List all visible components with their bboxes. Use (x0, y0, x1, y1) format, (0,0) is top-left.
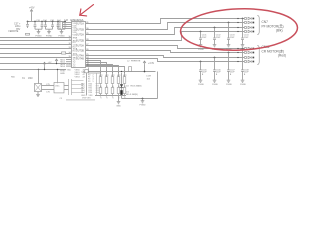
svg-text:FERRITE: FERRITE (9, 31, 19, 33)
svg-text:OUT2A: OUT2A (76, 34, 84, 37)
svg-text:VDD: VDD (73, 34, 78, 36)
svg-text:PGND: PGND (212, 84, 218, 86)
svg-text:PGND: PGND (139, 105, 146, 107)
svg-text:15: 15 (87, 65, 89, 67)
svg-text:+5V: +5V (48, 62, 52, 64)
svg-text:(Red): (Red) (278, 54, 286, 58)
svg-text:OUT2B: OUT2B (76, 40, 84, 43)
svg-text:220P: 220P (244, 37, 249, 39)
svg-text:10: 10 (68, 36, 70, 38)
svg-text:PGND: PGND (240, 84, 246, 86)
svg-text:ENB: ENB (73, 37, 78, 39)
svg-text:14: 14 (68, 52, 70, 54)
svg-text:OUT3A: OUT3A (76, 45, 84, 48)
svg-text:RD-3.3M(B): RD-3.3M(B) (126, 94, 138, 96)
svg-text:16M: 16M (28, 78, 33, 80)
svg-text:220P: 220P (202, 37, 207, 39)
svg-text:C139: C139 (146, 76, 152, 78)
svg-text:15: 15 (68, 56, 70, 58)
svg-text:OSC: OSC (55, 86, 60, 88)
svg-text:5: 5 (93, 81, 94, 83)
svg-text:FERRITE: FERRITE (131, 60, 141, 62)
svg-text:E09A92GA: E09A92GA (71, 18, 84, 22)
svg-text:PGND: PGND (226, 84, 232, 86)
svg-text:VSS3: VSS3 (75, 77, 81, 79)
svg-text:220P: 220P (216, 37, 221, 39)
svg-text:13: 13 (68, 47, 70, 49)
svg-text:PGND: PGND (198, 49, 204, 51)
svg-text:RXD: RXD (67, 63, 72, 65)
svg-text:OUT1A: OUT1A (76, 23, 84, 26)
svg-text:GND: GND (116, 106, 121, 108)
svg-text:CR MOTOR(赤): CR MOTOR(赤) (262, 48, 285, 53)
svg-text:OUT1B: OUT1B (76, 29, 84, 32)
svg-text:12: 12 (68, 43, 70, 45)
svg-text:MD4: MD4 (60, 66, 65, 68)
svg-text:GND: GND (60, 73, 65, 75)
svg-text:11: 11 (69, 39, 71, 41)
svg-text:TQ: TQ (73, 66, 76, 68)
svg-text:220P: 220P (230, 37, 235, 39)
svg-text:TXD: TXD (67, 69, 72, 71)
svg-text:+3.3V: +3.3V (148, 63, 155, 65)
svg-text:RD3.3M(B): RD3.3M(B) (131, 85, 142, 87)
svg-text:+42V: +42V (29, 6, 35, 9)
svg-text:P3: P3 (88, 81, 90, 83)
svg-text:U2: U2 (65, 18, 69, 22)
svg-text:TEST: TEST (60, 71, 66, 73)
svg-text:VSS VSS: VSS VSS (82, 97, 91, 99)
svg-text:PGND: PGND (198, 84, 204, 86)
svg-text:(Blk): (Blk) (276, 29, 283, 33)
